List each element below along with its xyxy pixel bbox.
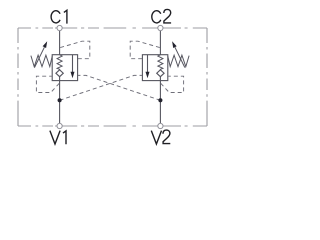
- valve CB1 check poppet (diamond): [56, 70, 63, 77]
- pilot line: CB2 top hook (from C2 line to box left side): [130, 41, 160, 59]
- wire: V2 main line (valve 2 box to port V2): [159, 81, 161, 124]
- valve CB1 check spring: [57, 55, 62, 70]
- valve CB1 envelope: [52, 55, 77, 81]
- pilot line: CB2 spring vent loop: [161, 76, 184, 92]
- label C1: [51, 10, 67, 23]
- port V2 circle: [158, 123, 163, 128]
- pilot line: cross pilot from V2 junction to CB1: [78, 75, 160, 100]
- label V1: [50, 131, 66, 145]
- port V1 circle: [57, 123, 62, 128]
- label C2: [152, 9, 171, 23]
- label V2: [151, 130, 170, 144]
- pilot line: cross pilot from V1 junction to CB2: [60, 75, 142, 100]
- wire: CB1 diamond to box bottom: [59, 77, 61, 81]
- valve CB2 check poppet (diamond): [157, 70, 164, 77]
- wire: V1 main line (valve 1 box to port V1): [59, 81, 61, 124]
- junction dot on V2 line: [158, 98, 162, 102]
- valve CB1 adjustment arrow: [35, 47, 45, 67]
- valve CB2 adjustment arrow: [175, 47, 185, 67]
- port C2 circle: [158, 25, 163, 30]
- valve CB1 adjustable spring: [31, 55, 52, 66]
- port C1 circle: [57, 25, 62, 30]
- pilot line: CB1 top hook (from C1 line to box right side): [60, 41, 90, 59]
- wire: CB2 diamond to box bottom: [159, 77, 161, 81]
- wire: C2 main line (port C2 to valve 2 box): [159, 31, 161, 55]
- valve CB1 relief flow arrow: [72, 55, 74, 73]
- valve CB2 check spring: [158, 55, 163, 70]
- junction dot on V1 line: [58, 98, 62, 102]
- valve CB2 relief flow arrow: [147, 55, 149, 73]
- valve CB2 envelope: [142, 55, 167, 81]
- assembly boundary (dash-dot enclosure): [18, 28, 207, 126]
- wire: C1 main line (port C1 to valve 1 box): [59, 31, 61, 55]
- valve CB2 adjustable spring: [168, 55, 189, 66]
- pilot line: CB1 spring vent loop: [36, 76, 59, 92]
